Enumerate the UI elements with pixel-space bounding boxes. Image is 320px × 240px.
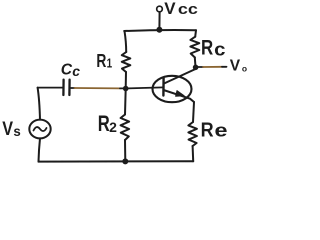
wire top rail	[124, 29, 196, 32]
svg-text:V: V	[2, 118, 13, 140]
junction dot Vcc on top rail	[156, 27, 162, 33]
wire R1 branch from rail	[125, 31, 127, 52]
wire Vs down branch	[39, 138, 41, 161]
label Cc	[61, 62, 81, 80]
label Rc	[201, 35, 226, 59]
label R2	[98, 111, 117, 136]
svg-text:e: e	[215, 121, 228, 141]
wire Vs corner to capacitor	[38, 87, 63, 89]
svg-text:c: c	[214, 39, 225, 59]
svg-text:1: 1	[107, 56, 113, 71]
svg-text:o: o	[242, 64, 247, 74]
svg-text:2: 2	[109, 120, 117, 135]
svg-text:c: c	[72, 64, 80, 79]
wire Re to bottom rail	[192, 146, 195, 161]
capacitor Cc left plate	[62, 80, 64, 95]
junction dot bottom rail	[122, 158, 128, 164]
wire bottom rail	[39, 160, 194, 162]
svg-text:R: R	[201, 35, 214, 59]
transistor emitter lead with arrow	[164, 90, 195, 102]
wire R2 from base node	[124, 89, 127, 115]
wire RC branch from rail	[194, 30, 197, 37]
resistor R2	[121, 115, 130, 141]
label R1	[96, 51, 112, 71]
wire Vcc terminal to top rail	[158, 12, 160, 29]
wire capacitor to base node (tinted)	[71, 87, 75, 89]
junction dot Vo node	[193, 65, 199, 71]
wire R2 to bottom rail	[124, 140, 126, 161]
svg-text:C: C	[61, 62, 73, 79]
svg-text:R: R	[96, 51, 106, 71]
label Re	[201, 119, 228, 141]
transistor base bar	[162, 78, 165, 96]
wire RC to Vo node	[194, 57, 197, 66]
emitter arrowhead	[176, 91, 185, 97]
transistor collector lead	[164, 69, 196, 84]
wire Vs up branch	[38, 88, 40, 120]
label Vo	[230, 58, 247, 75]
capacitor Cc right plate	[68, 80, 70, 95]
wire R1 to base node	[125, 72, 127, 88]
svg-text:V: V	[230, 58, 241, 75]
svg-text:V: V	[164, 0, 176, 18]
wire Vo output	[198, 66, 203, 68]
resistor RC	[190, 37, 199, 58]
svg-text:R: R	[98, 111, 110, 136]
resistor R1	[122, 52, 131, 72]
wire base node to transistor base	[128, 87, 163, 88]
source Vs	[29, 120, 50, 139]
label Vs	[2, 118, 21, 140]
label Vcc	[164, 0, 198, 18]
svg-text:cc: cc	[178, 2, 198, 18]
svg-text:s: s	[13, 123, 21, 139]
svg-text:R: R	[201, 119, 214, 141]
wire emitter to Re	[193, 102, 194, 122]
transistor Q1	[153, 76, 192, 102]
junction dot base node	[123, 86, 129, 92]
resistor Re	[188, 122, 197, 146]
sine wave inside Vs	[34, 127, 47, 131]
Vcc terminal	[157, 6, 163, 12]
